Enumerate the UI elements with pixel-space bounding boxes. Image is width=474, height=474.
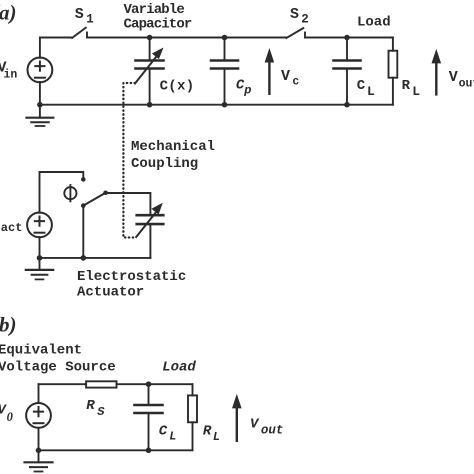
svg-text:Actuator: Actuator: [77, 284, 144, 300]
svg-text:C: C: [159, 424, 168, 440]
svg-text:Voltage Source: Voltage Source: [0, 360, 116, 376]
svg-text:Equivalent: Equivalent: [0, 343, 82, 359]
svg-text:(a): (a): [0, 1, 17, 25]
svg-text:R: R: [203, 423, 212, 439]
svg-text:Electrostatic: Electrostatic: [77, 269, 186, 285]
svg-text:S: S: [97, 405, 105, 419]
svg-text:R: R: [402, 78, 411, 94]
svg-text:L: L: [367, 84, 375, 99]
svg-text:C(x): C(x): [160, 79, 195, 95]
svg-text:V: V: [281, 68, 290, 85]
svg-text:Coupling: Coupling: [131, 156, 198, 172]
svg-text:L: L: [412, 84, 420, 99]
svg-text:p: p: [243, 83, 251, 97]
svg-text:S: S: [290, 6, 299, 23]
svg-text:C: C: [357, 78, 366, 94]
svg-text:S: S: [75, 6, 84, 23]
svg-text:Capacitor: Capacitor: [124, 16, 192, 32]
svg-text:L: L: [169, 429, 176, 443]
svg-text:Load: Load: [162, 360, 196, 376]
svg-text:Load: Load: [357, 15, 391, 31]
svg-text:Mechanical: Mechanical: [131, 139, 215, 155]
svg-text:L: L: [213, 430, 220, 444]
svg-text:act: act: [1, 221, 23, 235]
svg-text:1: 1: [86, 13, 94, 27]
svg-text:V: V: [449, 69, 458, 86]
svg-text:V: V: [250, 417, 260, 433]
svg-text:R: R: [86, 398, 95, 414]
svg-text:(b): (b): [0, 313, 17, 337]
svg-text:c: c: [292, 75, 299, 88]
svg-text:in: in: [4, 69, 18, 82]
svg-text:out: out: [459, 77, 474, 90]
svg-text:0: 0: [7, 410, 14, 424]
svg-text:out: out: [261, 424, 284, 438]
svg-text:2: 2: [301, 13, 309, 27]
